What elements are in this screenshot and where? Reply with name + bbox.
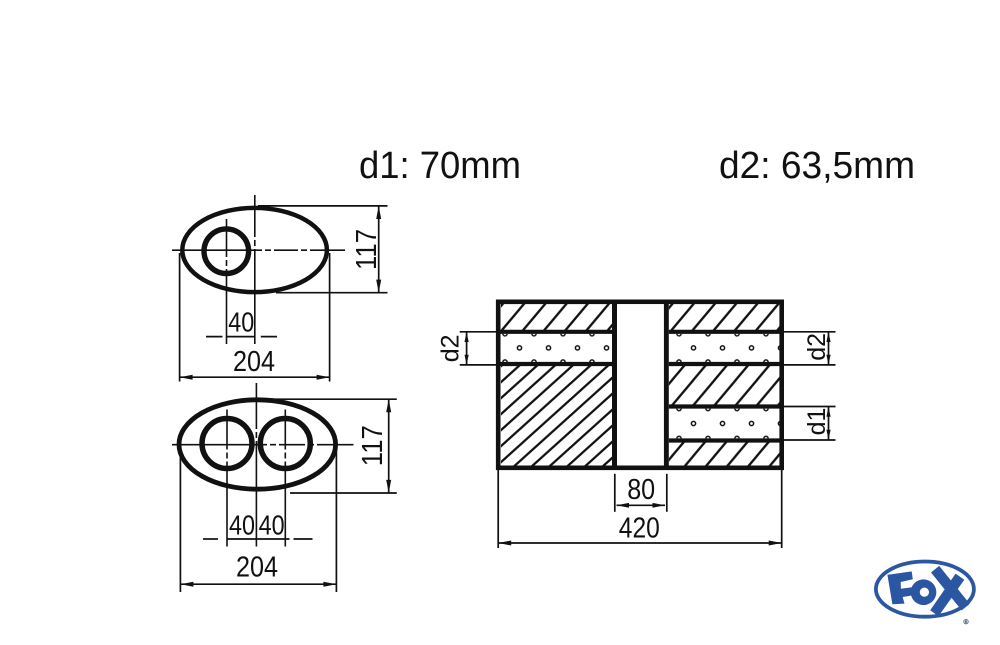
dim 204 right extension: [329, 253, 331, 382]
vertical centerline circle 2: [284, 410, 286, 547]
arrows top view: [180, 206, 382, 380]
letter O: [911, 579, 937, 605]
arrow 117 up: [376, 206, 381, 219]
dim 117 bottom extension line: [290, 492, 397, 494]
vertical centerline oval: [255, 383, 257, 547]
letter F: [887, 571, 913, 604]
d2 right arrows: [826, 332, 830, 342]
svg-text:204: 204: [236, 552, 278, 584]
pipe wall left: [612, 302, 617, 468]
svg-text:420: 420: [619, 513, 660, 545]
white pipe interior: [617, 304, 664, 465]
svg-text:d2: 63,5mm: d2: 63,5mm: [719, 145, 915, 187]
dim 40 line segments: [206, 336, 223, 338]
dim 80 arrow shaft: [617, 504, 666, 506]
dim 80 extension lines: [614, 474, 616, 512]
svg-text:117: 117: [351, 229, 383, 270]
svg-text:117: 117: [357, 425, 389, 466]
vertical centerline oval: [254, 195, 256, 344]
letter X: [931, 566, 970, 611]
inlet circle: [204, 229, 249, 274]
vertical centerline circle 1: [226, 410, 228, 547]
arrow 204 right: [323, 582, 336, 587]
svg-text:40: 40: [228, 307, 254, 338]
dim 117 top extension line: [258, 398, 397, 400]
d1 right dim lines: [784, 406, 836, 408]
dim 117 arrow line: [388, 399, 390, 493]
left chamber band borders: [501, 330, 613, 334]
dim 204 left extension: [179, 253, 181, 382]
logo ellipse ring: [876, 562, 974, 617]
arrow 204 left: [180, 375, 193, 380]
dim 204 left extension: [179, 447, 181, 592]
right circle: [260, 419, 310, 469]
arrow 117 down: [376, 280, 381, 293]
muffler body outline: [498, 302, 782, 468]
vertical centerline circle: [226, 219, 228, 344]
svg-text:80: 80: [627, 474, 655, 506]
d2 left dim lines: [460, 331, 500, 333]
dim 40 40 line segments: [203, 538, 218, 540]
80 arrows: [617, 503, 630, 508]
dim 204 arrow line: [180, 583, 336, 585]
horizontal centerline: [172, 444, 354, 446]
hatch fills right chamber: [669, 304, 782, 330]
registered mark: [964, 619, 968, 623]
arrow 204 left: [180, 582, 193, 587]
svg-text:40: 40: [229, 510, 255, 541]
oval body: [179, 400, 336, 489]
arrow 204 right: [317, 375, 330, 380]
hatch fills left chamber: [501, 304, 782, 466]
dim 117 top extension line: [258, 205, 388, 207]
svg-text:d1: 70mm: d1: 70mm: [359, 145, 521, 187]
svg-text:d2: d2: [437, 334, 465, 362]
pipe wall right: [664, 302, 669, 468]
d2 left arrows: [465, 332, 469, 342]
dim 117 arrow line: [378, 206, 380, 293]
420 arrows: [498, 541, 511, 546]
right chamber band borders: [669, 330, 782, 334]
arrow 117 down: [386, 480, 391, 493]
svg-text:d2: d2: [803, 333, 831, 361]
dim 420 extension lines: [497, 470, 499, 548]
arrow 117 up: [386, 399, 391, 412]
arrows right view: [465, 332, 831, 546]
svg-text:204: 204: [233, 346, 275, 378]
dim 117 bottom extension line: [276, 292, 388, 294]
left circle: [202, 419, 252, 469]
svg-text:40: 40: [259, 510, 285, 541]
horizontal centerline: [172, 249, 345, 251]
d2 right dim lines: [784, 331, 836, 333]
dim 204 right extension: [335, 447, 337, 592]
oval body: [182, 208, 327, 292]
svg-text:d1: d1: [803, 408, 831, 436]
dim 204 arrow line: [180, 376, 330, 378]
dim 420 arrow line: [498, 542, 782, 544]
d1 right arrows: [826, 407, 830, 417]
arrows bottom view: [180, 399, 391, 586]
